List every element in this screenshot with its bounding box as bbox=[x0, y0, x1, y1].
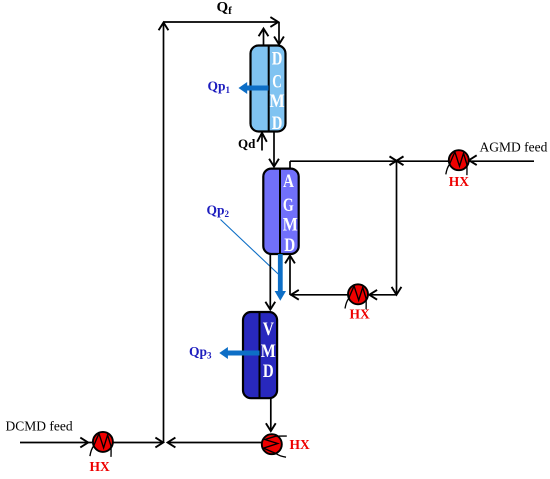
svg-text:DCMD feed: DCMD feed bbox=[6, 419, 73, 434]
junction X crossing at vertical branch bbox=[390, 156, 404, 165]
svg-text:D: D bbox=[263, 362, 274, 382]
svg-text:M: M bbox=[283, 216, 298, 236]
svg-text:V: V bbox=[263, 320, 275, 340]
svg-text:G: G bbox=[283, 196, 294, 216]
svg-text:Qf: Qf bbox=[217, 0, 233, 17]
svg-text:C: C bbox=[272, 73, 282, 93]
svg-text:D: D bbox=[272, 114, 283, 134]
wire: elbow down into DCMD top bbox=[278, 22, 280, 44]
svg-text:HX: HX bbox=[90, 459, 111, 474]
svg-text:HX: HX bbox=[350, 307, 371, 322]
arrowhead up at top of recycle line bbox=[159, 23, 169, 31]
wire: Qf top horizontal line bbox=[164, 21, 279, 23]
svg-text:A: A bbox=[283, 172, 294, 192]
leader line from Qp2 to arrow bbox=[221, 220, 279, 275]
svg-text:M: M bbox=[261, 342, 276, 362]
arrow Qd up into DCMD bottom bbox=[261, 133, 263, 151]
wire: VMD bottom to HX3 bbox=[270, 398, 272, 431]
arrow Qp2 (thick blue, down out of AGMD) bbox=[275, 254, 286, 301]
arrow Qp3 (thick blue, left out of VMD) bbox=[219, 347, 259, 359]
module AGMD bbox=[263, 169, 298, 254]
svg-text:Qd: Qd bbox=[238, 136, 256, 151]
wire: elbow into AGMD top bbox=[289, 161, 291, 168]
wire: vapor up arrow from DCMD top bbox=[263, 29, 265, 46]
module VMD bbox=[243, 312, 277, 398]
wire: bottom horizontal from HX3 to junction bbox=[168, 442, 262, 444]
arrowhead left at corner bbox=[291, 290, 299, 300]
svg-text:D: D bbox=[284, 236, 295, 256]
svg-text:HX: HX bbox=[290, 437, 311, 452]
wire: HX4 to bottom junction bbox=[113, 442, 164, 444]
wire: mid horizontal to HX2 bbox=[290, 294, 397, 296]
svg-text:D: D bbox=[272, 50, 283, 70]
wire: AGMD feed horizontal bbox=[290, 160, 534, 162]
heat exchanger HX4 (bottom left) bbox=[90, 432, 113, 457]
arrowhead down into DCMD bbox=[274, 37, 284, 45]
wire: right branch vertical bbox=[396, 161, 398, 295]
heat exchanger HX3 (bottom, rotated) bbox=[262, 434, 287, 457]
arrowhead right at end of Qf line bbox=[270, 17, 278, 27]
wire: corner up into AGMD bottom bbox=[289, 256, 291, 295]
heat exchanger HX2 (middle) bbox=[345, 284, 368, 309]
arrowhead left into HX2 bbox=[369, 290, 377, 300]
wire: AGMD bottom to VMD top bbox=[269, 254, 271, 310]
svg-text:Qp2: Qp2 bbox=[207, 203, 230, 220]
wire: DCMD feed line into HX4 bbox=[20, 442, 92, 444]
wire: DCMD bottom to AGMD top bbox=[273, 132, 275, 167]
module DCMD bbox=[251, 46, 286, 132]
svg-text:Qp1: Qp1 bbox=[208, 79, 231, 96]
svg-text:Qp3: Qp3 bbox=[189, 344, 212, 361]
wire: left recycle vertical line bbox=[163, 22, 165, 443]
arrowhead right at bottom junction bbox=[155, 438, 163, 448]
arrowhead up (DCMD vent) bbox=[259, 29, 269, 37]
heat exchanger HX1 (AGMD feed) bbox=[446, 150, 469, 175]
arrowhead left at bottom junction bbox=[168, 438, 176, 448]
arrowhead right into HX4 bbox=[80, 438, 88, 448]
svg-text:AGMD feed: AGMD feed bbox=[480, 140, 548, 155]
arrow Qp1 (thick blue, left out of DCMD) bbox=[239, 82, 269, 94]
svg-text:M: M bbox=[270, 92, 285, 112]
svg-text:HX: HX bbox=[449, 174, 470, 189]
arrowhead left into HX1 bbox=[469, 155, 477, 165]
